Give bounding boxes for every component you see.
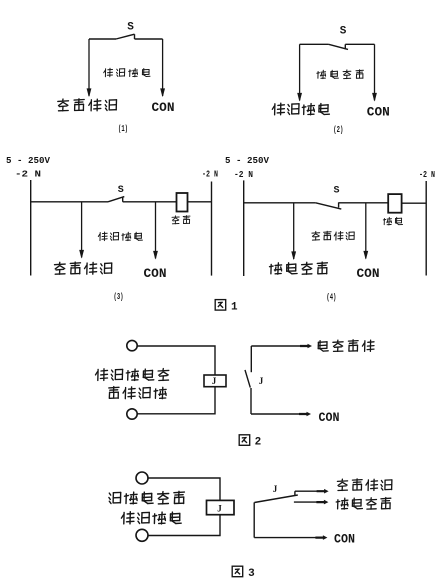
switch S contact tick (circuit 2) [344, 44, 346, 49]
left rail (circuit 4) [243, 180, 245, 276]
svg-text:5 - 250V: 5 - 250V [225, 156, 270, 166]
terminal circle bottom (fig2) [127, 409, 137, 419]
svg-text:-2 N: -2 N [419, 170, 435, 180]
text 线圈 (circuit 4) [383, 217, 391, 225]
switch S contact tick (circuit 4) [338, 202, 340, 207]
coil box (circuit 4) [388, 194, 401, 213]
svg-text:3: 3 [248, 568, 255, 580]
text 选择电压 (fig3) [121, 512, 133, 524]
text 检测接点 (circuit 3) [98, 232, 107, 241]
svg-text:CON: CON [319, 410, 340, 425]
switch S blade (circuit 1) [116, 34, 135, 39]
svg-text:(2): (2) [333, 125, 343, 135]
wire from coil to right rail (circuit 4) [402, 202, 427, 204]
svg-text:S: S [340, 26, 347, 38]
wire + arrow to 停表端子 (fig2) [251, 345, 303, 347]
wire + arrow to stop terminal (circuit 3) [81, 202, 83, 258]
wire + arrow to CON (circuit 4) [365, 203, 367, 259]
left rail (circuit 3) [30, 180, 32, 276]
wire from left rail to switch (circuit 3) [31, 201, 108, 203]
contact + arrow to 停表端子 (fig3) [294, 501, 318, 503]
wire + arrow to 启表端子 (fig3) [295, 490, 318, 492]
switch S blade (circuit 3) [108, 197, 124, 202]
wire loop (fig3) [148, 478, 220, 500]
changeover contact blade (fig3) [254, 495, 297, 503]
text 选择电压 (fig2) [109, 387, 119, 399]
svg-text:5 - 250V: 5 - 250V [6, 156, 51, 166]
svg-text:1: 1 [231, 302, 238, 314]
wire + arrow to CON (circuit 3) [155, 202, 157, 259]
text 启表端子 (fig3) [337, 479, 347, 490]
terminal circle bottom (fig3) [136, 529, 148, 541]
wire loop (fig2) [137, 346, 215, 375]
changeover contact common wire (fig3) [253, 502, 255, 537]
switch S contact tick (circuit 1) [134, 34, 136, 39]
wire + arrow to CON (fig3) [254, 537, 318, 539]
wire + arrow to stop terminal (circuit 4) [293, 203, 295, 259]
switch S blade (circuit 4) [316, 203, 342, 209]
wire top-left (circuit 2) [300, 43, 329, 45]
text 根据继电器 (fig3) [109, 492, 121, 503]
svg-text:-2 N: -2 N [234, 170, 253, 180]
relay coil box J (fig3) [207, 500, 235, 514]
text 检测接点 (circuit 2) [317, 70, 326, 78]
wire + arrow to CON (circuit 2) [374, 44, 376, 100]
svg-text:(4): (4) [326, 293, 336, 303]
svg-text:J: J [217, 504, 222, 514]
coil box (circuit 3) [177, 193, 188, 212]
text 停表端子 (circuit 1) [58, 99, 69, 111]
relay coil box J (fig2) [204, 375, 226, 387]
svg-text:CON: CON [152, 100, 175, 115]
text 根据继电器 (fig2) [96, 369, 108, 381]
wire top-left (circuit 1) [89, 38, 116, 40]
svg-text:-2 N: -2 N [15, 170, 41, 180]
wire + arrow to stop terminal (circuit 2) [299, 44, 301, 100]
terminal circle top (fig3) [136, 472, 148, 484]
text 停表端子 (circuit 3) [55, 262, 66, 274]
svg-text:J: J [273, 484, 278, 494]
wire + arrow to CON (circuit 1) [162, 39, 164, 96]
contact hook 启表 (fig3) [294, 491, 296, 495]
svg-text:J: J [212, 376, 217, 386]
svg-text:S: S [118, 185, 124, 196]
wire top-right (circuit 1) [135, 38, 163, 40]
switch S blade (circuit 2) [329, 44, 348, 49]
svg-text:CON: CON [334, 532, 355, 547]
svg-text:J: J [259, 376, 264, 386]
svg-text:S: S [333, 185, 339, 196]
relay contact upper wire (fig2) [250, 346, 252, 372]
wire + arrow to stop terminal (circuit 1) [88, 39, 90, 96]
terminal circle top (fig2) [127, 340, 137, 350]
text 停表端子 (fig3) [336, 498, 348, 509]
text 检测接点 (circuit 1) [104, 68, 113, 77]
label 图3 [232, 566, 243, 577]
wire from coil to right rail (circuit 3) [188, 201, 212, 203]
svg-text:CON: CON [357, 266, 380, 281]
text 停表端子 (fig2) [318, 341, 328, 352]
svg-text:CON: CON [144, 266, 167, 281]
svg-text:(1): (1) [118, 124, 128, 134]
right rail (circuit 4) [425, 181, 427, 276]
svg-text:S: S [127, 22, 134, 34]
relay contact blade (fig2) [245, 370, 250, 388]
label 图2 [239, 435, 250, 446]
svg-text:CON: CON [367, 105, 390, 120]
svg-text:(3): (3) [114, 292, 124, 302]
wire + arrow to CON (fig2) [251, 413, 303, 415]
svg-text:2: 2 [255, 437, 262, 449]
text 线圈 (circuit 3) [172, 216, 179, 224]
text 检测接点 (circuit 4) [312, 231, 320, 240]
svg-text:-2 N: -2 N [202, 170, 218, 180]
wire from switch to coil (circuit 4) [339, 202, 389, 204]
text 停表端子 (circuit 4) [270, 263, 282, 274]
wire from switch to coil (circuit 3) [123, 201, 177, 203]
label 图1 [215, 300, 226, 311]
text 停表端子 (circuit 2) [272, 103, 284, 115]
right rail (circuit 3) [211, 182, 213, 276]
wire top-right (circuit 2) [345, 43, 374, 45]
wire from left rail to switch (circuit 4) [244, 202, 316, 204]
relay contact lower wire (fig2) [250, 388, 252, 414]
switch S contact tick (circuit 3) [122, 197, 124, 202]
